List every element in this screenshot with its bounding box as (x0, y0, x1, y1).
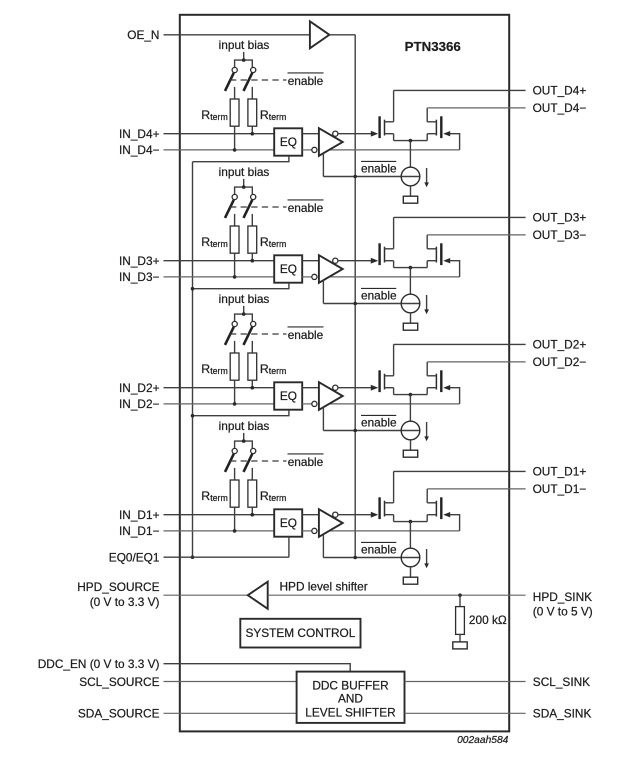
wire SCL source (164, 681, 297, 683)
svg-text:input bias: input bias (219, 419, 270, 433)
wire M1 drain to OUT+ (393, 471, 395, 502)
wire left resistor to IN- (234, 253, 236, 277)
wire rail to current source (409, 141, 411, 168)
svg-text:input bias: input bias (219, 38, 270, 52)
bubble inverted output (333, 385, 338, 390)
wire buffer inverted run (328, 530, 460, 532)
svg-text:enable: enable (361, 543, 397, 557)
wire M1 drain to OUT+ (393, 90, 395, 121)
node input bias tee (242, 312, 246, 316)
label enable (switches D4) (288, 73, 324, 88)
wire switch-resistor right (251, 214, 253, 226)
transistor M1 (D4+) (380, 116, 394, 138)
buffer amp (D2) (319, 382, 343, 410)
svg-text:enable: enable (288, 74, 324, 88)
wire right resistor to IN+ (251, 126, 253, 134)
wire switch tee (235, 60, 253, 67)
svg-text:enable: enable (288, 455, 324, 469)
ground (D4) (403, 196, 417, 203)
wire switch-resistor right (251, 341, 253, 353)
wire EQ to buffer + (302, 387, 319, 389)
wire EQ to buffer + (302, 514, 319, 516)
svg-text:OUT_D1+: OUT_D1+ (533, 465, 587, 479)
wire input bias stub (243, 433, 245, 441)
ground 200k (453, 642, 467, 649)
svg-text:enable: enable (288, 328, 324, 342)
wire DDC_EN (164, 664, 351, 672)
wire OUT_D1- (427, 488, 525, 490)
resistor Rterm (D3 right) (248, 226, 257, 253)
wire rail to current source (409, 522, 411, 549)
wire buffer enable stub (322, 153, 324, 176)
label enable (switches D2) (288, 327, 324, 342)
label enable (output D2) (361, 415, 397, 429)
wire switch-resistor left (234, 468, 236, 480)
svg-text:DDC_EN (0 V to 3.3 V): DDC_EN (0 V to 3.3 V) (38, 657, 160, 671)
wire buffer to M1 gate (338, 385, 378, 391)
node left resistor junction (233, 148, 237, 152)
wire buffer inverted run (328, 403, 460, 405)
wire resistor to ground (459, 634, 461, 642)
wire buffer to M1 gate (338, 258, 378, 264)
node rail junction (409, 520, 413, 524)
svg-text:EQ: EQ (280, 516, 297, 530)
wire enable bus (354, 35, 356, 558)
wire enable row (323, 303, 419, 305)
svg-text:SYSTEM CONTROL: SYSTEM CONTROL (245, 626, 355, 640)
label enable (output D4) (361, 161, 397, 175)
node enable bus junction (353, 175, 357, 179)
switch right (D3) (244, 194, 256, 218)
wire enable row (323, 430, 419, 432)
node rail junction (409, 393, 413, 397)
svg-text:EQ: EQ (280, 389, 297, 403)
bubble inverted output (333, 512, 338, 517)
wire switch tee (235, 187, 253, 194)
wire buffer to M1 gate (338, 131, 378, 137)
bubble inverting input (312, 147, 317, 152)
svg-text:enable: enable (361, 289, 397, 303)
svg-text:IN_D1+: IN_D1+ (119, 508, 160, 522)
wire M2 drain to OUT- (426, 362, 428, 376)
switch left (D3) (225, 194, 237, 218)
label enable (output D3) (361, 288, 397, 302)
svg-text:HPD_SOURCE: HPD_SOURCE (77, 580, 159, 594)
wire common source rail (394, 267, 428, 269)
svg-text:EQ0/EQ1: EQ0/EQ1 (109, 550, 160, 564)
wire M1 source (393, 134, 395, 141)
system control block (240, 619, 360, 648)
wire left resistor to IN- (234, 126, 236, 150)
svg-text:OE_N: OE_N (127, 28, 159, 42)
wire OUT_D2- (427, 361, 525, 363)
node EQ bus D3 (191, 287, 195, 291)
transistor M2 (D4-) (427, 116, 441, 138)
buffer amp (D1) (319, 509, 343, 537)
wire SDA source (164, 712, 297, 714)
wire switch-resistor left (234, 214, 236, 226)
node EQ bus EQ0/EQ1 (191, 555, 195, 559)
node left resistor junction (233, 529, 237, 533)
wire HPD to sink (268, 594, 526, 596)
svg-text:HPD_SINK: HPD_SINK (533, 590, 592, 604)
wire current source to ground (410, 186, 412, 196)
wire IN_D3- (164, 276, 275, 278)
wire IN_D2+ (164, 387, 275, 389)
EQ block (D1) (274, 509, 302, 536)
svg-text:IN_D4−: IN_D4− (119, 143, 160, 157)
node right resistor junction (251, 132, 255, 136)
wire common source rail (394, 521, 428, 523)
svg-text:PTN3366: PTN3366 (405, 39, 461, 54)
wire switch-resistor right (251, 87, 253, 99)
svg-text:OUT_D3−: OUT_D3− (533, 228, 587, 242)
wire M1 source (393, 261, 395, 268)
svg-text:input bias: input bias (219, 165, 270, 179)
node EQ bus D2 (191, 414, 195, 418)
bubble inverted output (333, 258, 338, 263)
wire OUT_D3- (427, 234, 525, 236)
resistor Rterm (D1 right) (248, 480, 257, 507)
label enable (switches D1) (288, 454, 324, 469)
wire rail to current source (409, 395, 411, 422)
bubble inverted output (333, 131, 338, 136)
wire IN_D3+ (164, 260, 275, 262)
wire EQ select stub (193, 410, 289, 416)
node right resistor junction (251, 386, 255, 390)
node right resistor junction (251, 513, 255, 517)
resistor Rterm (D3 left) (230, 226, 239, 253)
svg-text:enable: enable (361, 416, 397, 430)
wire enable dashed (230, 206, 287, 208)
bubble inverting input (312, 274, 317, 279)
resistor Rterm (D4 left) (230, 99, 239, 126)
chip outline PTN3366 (180, 15, 509, 732)
wire buffer to M1 gate (338, 512, 378, 518)
wire right resistor to IN+ (251, 507, 253, 515)
wire EQ select bus (192, 162, 194, 558)
wire common source rail (394, 394, 428, 396)
svg-text:OUT_D4+: OUT_D4+ (533, 84, 587, 98)
wire SCL sink (405, 681, 526, 683)
svg-text:SDA_SOURCE: SDA_SOURCE (78, 707, 160, 721)
wire left resistor to IN- (234, 507, 236, 531)
wire OE_N (164, 34, 310, 36)
current source (D1) (401, 548, 420, 567)
label enable (output D1) (361, 542, 397, 556)
svg-text:IN_D4+: IN_D4+ (119, 127, 160, 141)
resistor Rterm (D4 right) (248, 99, 257, 126)
node left resistor junction (233, 275, 237, 279)
svg-text:IN_D2+: IN_D2+ (119, 381, 160, 395)
node input bias tee (242, 58, 246, 62)
wire switch tee (235, 441, 253, 448)
node rail junction (409, 266, 413, 270)
svg-text:(0 V to 3.3 V): (0 V to 3.3 V) (90, 595, 160, 609)
svg-text:EQ: EQ (280, 262, 297, 276)
svg-text:SCL_SINK: SCL_SINK (533, 675, 590, 689)
wire EQ to buffer - (302, 403, 312, 405)
wire OUT_D3+ (394, 216, 526, 218)
wire right resistor to IN+ (251, 380, 253, 388)
switch left (D1) (225, 448, 237, 472)
resistor Rterm (D1 left) (230, 480, 239, 507)
label enable (switches D3) (288, 200, 324, 215)
svg-text:OUT_D1−: OUT_D1− (533, 482, 587, 496)
wire rail to current source (409, 268, 411, 295)
wire inverted riser to M2 gate (443, 258, 459, 277)
wire enable row (323, 176, 419, 178)
svg-text:enable: enable (361, 162, 397, 176)
wire inverted riser to M2 gate (443, 131, 459, 150)
node enable bus junction (353, 556, 357, 560)
wire switch-resistor left (234, 87, 236, 99)
buffer amp (D3) (319, 255, 343, 283)
switch right (D4) (244, 67, 256, 91)
current arrow (424, 295, 429, 314)
node input bias tee (242, 439, 246, 443)
svg-text:AND: AND (338, 692, 363, 706)
svg-text:IN_D1−: IN_D1− (119, 524, 160, 538)
svg-text:DDC BUFFER: DDC BUFFER (312, 678, 388, 692)
switch right (D1) (244, 448, 256, 472)
wire buffer inverted run (328, 276, 460, 278)
transistor M2 (D1-) (427, 497, 441, 519)
transistor M2 (D3-) (427, 243, 441, 265)
switch left (D4) (225, 67, 237, 91)
EQ block (D4) (274, 128, 302, 155)
svg-text:LEVEL SHIFTER: LEVEL SHIFTER (305, 705, 395, 719)
wire left resistor to IN- (234, 380, 236, 404)
wire EQ to buffer - (302, 149, 312, 151)
wire enable dashed (230, 79, 287, 81)
svg-text:SCL_SOURCE: SCL_SOURCE (79, 675, 159, 689)
wire input bias stub (243, 306, 245, 314)
current arrow (424, 168, 429, 187)
wire enable dashed (230, 333, 287, 335)
svg-text:002aah584: 002aah584 (457, 735, 509, 746)
wire OUT_D4+ (394, 89, 526, 91)
wire input bias stub (243, 52, 245, 60)
transistor M1 (D3+) (380, 243, 394, 265)
wire EQ select stub (193, 283, 289, 289)
wire OE buffer output (329, 34, 355, 36)
ground (D1) (403, 577, 417, 584)
node enable bus junction (353, 302, 357, 306)
wire OUT_D4- (427, 107, 525, 109)
current source (D3) (401, 294, 420, 313)
node HPD 200k tap (458, 593, 462, 597)
wire current source to ground (410, 313, 412, 323)
EQ block (D3) (274, 255, 302, 282)
wire M1 source (393, 515, 395, 522)
wire SDA sink (405, 712, 526, 714)
wire buffer enable stub (322, 534, 324, 557)
bubble inverting input (312, 528, 317, 533)
wire M2 drain to OUT- (426, 235, 428, 249)
svg-text:200 kΩ: 200 kΩ (469, 613, 507, 627)
wire EQ select stub (288, 537, 290, 558)
ground (D2) (403, 450, 417, 457)
wire current source to ground (410, 440, 412, 450)
wire M1 drain to OUT+ (393, 344, 395, 375)
wire EQ to buffer - (302, 530, 312, 532)
transistor M1 (D2+) (380, 370, 394, 392)
wire current source to ground (410, 567, 412, 577)
switch right (D2) (244, 321, 256, 345)
node right resistor junction (251, 259, 255, 263)
svg-text:OUT_D3+: OUT_D3+ (533, 211, 587, 225)
wire inverted riser to M2 gate (443, 512, 459, 531)
wire EQ to buffer + (302, 260, 319, 262)
wire OUT_D1+ (394, 470, 526, 472)
wire EQ0/EQ1 (164, 556, 289, 558)
wire IN_D1- (164, 530, 275, 532)
svg-text:IN_D2−: IN_D2− (119, 397, 160, 411)
bubble inverting input (312, 401, 317, 406)
resistor Rterm (D2 right) (248, 353, 257, 380)
buffer HPD level shifter (248, 582, 268, 609)
wire M2 source (426, 388, 428, 395)
wire M2 drain to OUT- (426, 489, 428, 503)
svg-text:IN_D3−: IN_D3− (119, 270, 160, 284)
wire EQ select stub (193, 156, 289, 162)
wire IN_D1+ (164, 514, 275, 516)
EQ block (D2) (274, 382, 302, 409)
svg-text:enable: enable (288, 201, 324, 215)
current arrow (424, 422, 429, 441)
wire IN_D4- (164, 149, 275, 151)
wire IN_D2- (164, 403, 275, 405)
wire M2 source (426, 261, 428, 268)
buffer amp (D4) (319, 128, 343, 156)
ground (D3) (403, 323, 417, 330)
wire right resistor to IN+ (251, 253, 253, 261)
current arrow (424, 549, 429, 568)
node enable bus junction (353, 429, 357, 433)
DDC buffer block (297, 672, 405, 723)
wire M2 source (426, 515, 428, 522)
wire switch-resistor right (251, 468, 253, 480)
svg-text:OUT_D4−: OUT_D4− (533, 101, 587, 115)
transistor M2 (D2-) (427, 370, 441, 392)
svg-text:IN_D3+: IN_D3+ (119, 254, 160, 268)
resistor Rterm (D2 left) (230, 353, 239, 380)
wire enable row (323, 557, 419, 559)
current source (D2) (401, 421, 420, 440)
wire buffer enable stub (322, 407, 324, 430)
current source (D4) (401, 167, 420, 186)
wire buffer inverted run (328, 149, 460, 151)
node left resistor junction (233, 402, 237, 406)
wire HPD source (164, 594, 248, 596)
wire EQ to buffer - (302, 276, 312, 278)
svg-text:OUT_D2+: OUT_D2+ (533, 338, 587, 352)
wire common source rail (394, 140, 428, 142)
resistor 200 kOhm (456, 607, 465, 635)
svg-text:OUT_D2−: OUT_D2− (533, 355, 587, 369)
wire inverted riser to M2 gate (443, 385, 459, 404)
wire buffer enable stub (322, 280, 324, 303)
transistor M1 (D1+) (380, 497, 394, 519)
wire M1 source (393, 388, 395, 395)
wire switch-resistor left (234, 341, 236, 353)
wire input bias stub (243, 179, 245, 187)
node input bias tee (242, 185, 246, 189)
wire OUT_D2+ (394, 343, 526, 345)
wire switch tee (235, 314, 253, 321)
wire tap to resistor (459, 595, 461, 606)
node rail junction (409, 139, 413, 143)
wire enable dashed (230, 460, 287, 462)
svg-text:EQ: EQ (280, 135, 297, 149)
wire IN_D4+ (164, 133, 275, 135)
svg-text:SDA_SINK: SDA_SINK (533, 707, 592, 721)
svg-text:(0 V to 5 V): (0 V to 5 V) (533, 605, 593, 619)
svg-text:HPD level shifter: HPD level shifter (280, 580, 368, 594)
wire EQ to buffer + (302, 133, 319, 135)
switch left (D2) (225, 321, 237, 345)
buffer OE_N (310, 21, 330, 48)
wire M1 drain to OUT+ (393, 217, 395, 248)
wire M2 source (426, 134, 428, 141)
wire M2 drain to OUT- (426, 108, 428, 122)
svg-text:input bias: input bias (219, 292, 270, 306)
